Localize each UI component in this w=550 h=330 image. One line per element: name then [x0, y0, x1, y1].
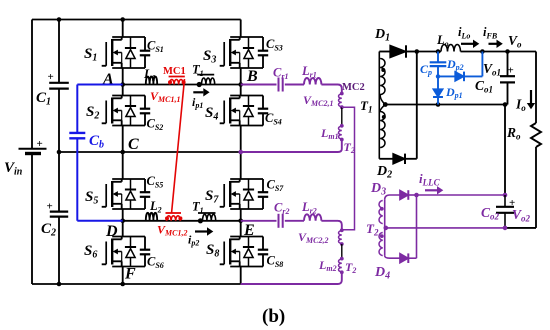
wire top rail	[32, 19, 241, 21]
wire left rail lower	[31, 154, 33, 285]
svg-text:+: +	[47, 201, 53, 213]
node T2 center tap	[384, 226, 389, 231]
transformer T2 secondary winding lower	[379, 233, 383, 256]
svg-text:S1: S1	[84, 46, 97, 64]
battery Vin	[19, 148, 47, 150]
capacitor CS3	[262, 37, 264, 51]
node E	[238, 219, 243, 224]
node Vo/Co1	[505, 49, 510, 54]
svg-text:B: B	[246, 68, 258, 85]
svg-text:S4: S4	[205, 105, 218, 123]
node: top rail junction at left leg	[120, 17, 125, 22]
svg-text:+: +	[37, 138, 43, 150]
transistor S5	[112, 178, 145, 180]
capacitor Cp	[437, 52, 439, 63]
body diode of S1	[130, 37, 132, 48]
transistor S6	[112, 236, 145, 238]
svg-text:CS2: CS2	[147, 117, 164, 132]
transistor S2	[112, 95, 145, 97]
inductor Lr2	[304, 214, 321, 221]
transformer T2 secondary winding upper	[379, 201, 383, 224]
inductor Lo	[441, 45, 461, 52]
coupled winding MC1 lower (VMC1,2)	[166, 212, 182, 214]
svg-text:Vo2: Vo2	[512, 207, 531, 223]
capacitor C1	[58, 20, 60, 83]
svg-text:Lr1: Lr1	[301, 64, 317, 79]
svg-text:CS6: CS6	[147, 255, 164, 270]
node Co2 bottom	[503, 226, 508, 231]
wire Lm1 return to mid rail	[241, 140, 342, 153]
svg-text:VMC2,2: VMC2,2	[298, 230, 328, 245]
inductor L2	[146, 213, 157, 221]
svg-text:Io: Io	[515, 97, 526, 113]
capacitor Co2	[504, 195, 506, 207]
svg-text:CS3: CS3	[266, 37, 283, 52]
current arrow iFB	[489, 43, 497, 45]
wire A to B	[123, 84, 241, 86]
node Co2 top	[503, 193, 508, 198]
node Cp/Dp junction	[436, 74, 440, 78]
transformer T1 secondary line	[378, 52, 380, 159]
svg-text:S2: S2	[86, 104, 99, 122]
svg-text:D1: D1	[374, 27, 390, 44]
svg-text:Dp2: Dp2	[446, 57, 464, 72]
capacitor Cb	[69, 132, 85, 134]
node iFB junction	[480, 49, 485, 54]
svg-text:Cb: Cb	[89, 133, 104, 151]
svg-text:CS7: CS7	[267, 178, 285, 193]
capacitor CS6	[144, 237, 146, 250]
wire left rail upper	[31, 20, 33, 149]
magnetic link MC1	[172, 79, 185, 214]
right rail with Io and Ro	[535, 52, 537, 124]
node: mid rail junction at C column	[57, 150, 62, 155]
transformer T1 secondary winding lower	[380, 105, 385, 148]
svg-text:CS4: CS4	[265, 111, 282, 126]
node A	[120, 82, 125, 87]
wire bottom rail	[32, 283, 241, 285]
transformer T1 primary lower	[198, 212, 216, 214]
diode D4	[385, 256, 400, 258]
coupled winding MC1 upper	[169, 76, 185, 78]
svg-text:S6: S6	[84, 243, 97, 261]
node Co1 bottom	[503, 102, 508, 107]
capacitor CS2	[144, 96, 146, 109]
svg-text:iLLC: iLLC	[419, 171, 441, 187]
node mid rail purple junction	[238, 150, 243, 155]
svg-text:C2: C2	[41, 221, 56, 239]
wire to Co2 top	[417, 194, 506, 196]
svg-text:ip2: ip2	[188, 233, 199, 248]
svg-text:D3: D3	[370, 181, 386, 198]
wire right leg segments	[240, 20, 242, 38]
wire junction to Lo	[417, 51, 441, 53]
svg-text:Vo1: Vo1	[483, 61, 501, 77]
svg-text:Cr1: Cr1	[273, 66, 288, 81]
inductor L1	[146, 76, 157, 84]
body diode of S2	[130, 96, 132, 107]
node: top rail junction at C1	[57, 17, 62, 22]
wire MC2L to Lm2	[341, 244, 343, 259]
node: bottom rail junction at C column	[57, 282, 62, 287]
wire Lr1 to MC2	[321, 85, 341, 95]
wire Vo1 bottom to Co2 top	[504, 105, 506, 196]
svg-text:Co1: Co1	[475, 78, 493, 94]
svg-text:L2: L2	[149, 199, 162, 214]
wire mid rail C	[59, 151, 241, 153]
transistor S4	[230, 95, 263, 97]
wire T2 tap to Co2 bottom	[386, 227, 505, 229]
svg-text:F: F	[124, 266, 136, 283]
svg-text:S7: S7	[205, 188, 219, 206]
capacitor CS7	[262, 179, 264, 192]
svg-text:Ro: Ro	[506, 125, 521, 141]
svg-text:D: D	[105, 223, 118, 240]
diode Dp2	[438, 75, 455, 77]
svg-text:T1: T1	[192, 63, 204, 78]
capacitor C2	[58, 152, 60, 212]
node D3/D4 junction	[414, 193, 419, 198]
svg-text:+: +	[508, 65, 514, 77]
capacitor CS8	[262, 237, 264, 250]
transformer T2 secondary line	[384, 200, 386, 256]
node Dp1 bottom	[436, 102, 441, 107]
svg-text:Vo: Vo	[508, 33, 522, 49]
inductor Lm2	[340, 257, 344, 261]
svg-text:MC2: MC2	[342, 82, 365, 93]
body diode of S7	[248, 179, 250, 190]
svg-text:iLo: iLo	[458, 25, 470, 40]
wire blue to node D	[76, 138, 78, 221]
node B	[238, 82, 243, 87]
svg-text:Lm2: Lm2	[318, 258, 337, 273]
diode D1	[379, 51, 390, 53]
transformer T1 secondary winding upper	[380, 59, 385, 105]
diode D3	[385, 195, 400, 200]
svg-text:iFB: iFB	[483, 25, 498, 40]
svg-text:C: C	[128, 136, 139, 153]
transistor S1	[112, 36, 145, 38]
wire Lr2 to MC2 lower	[321, 221, 341, 231]
svg-text:VMC1,2: VMC1,2	[157, 223, 187, 238]
svg-text:S3: S3	[203, 48, 216, 66]
svg-text:C1: C1	[36, 90, 51, 108]
resistor Ro	[531, 123, 541, 147]
magnetic link MC2 vertical	[342, 107, 355, 230]
wire E to Cr2	[241, 220, 277, 222]
svg-text:MC1: MC1	[163, 66, 186, 77]
capacitor CS5	[144, 179, 146, 192]
svg-text:CS5: CS5	[147, 174, 164, 189]
svg-text:T2: T2	[366, 221, 379, 237]
transistor S8	[230, 236, 263, 238]
wire D to E	[123, 220, 241, 222]
node Cp top	[436, 49, 441, 54]
wire D2 cathode riser	[416, 52, 418, 159]
coupled winding MC2 lower (VMC2,2)	[340, 228, 344, 232]
current arrow ip1	[193, 91, 203, 93]
svg-text:D4: D4	[374, 265, 390, 282]
transformer T1 primary upper	[197, 74, 214, 76]
svg-text:S5: S5	[85, 189, 98, 207]
svg-text:VMC2,1: VMC2,1	[303, 93, 333, 108]
diode Dp1	[437, 76, 439, 89]
node F	[120, 282, 125, 287]
body diode of S3	[248, 37, 250, 48]
svg-text:E: E	[243, 222, 255, 239]
center tap node	[383, 102, 388, 107]
svg-text:CS8: CS8	[267, 254, 284, 269]
inductor Lr1	[304, 78, 321, 84]
svg-text:D2: D2	[376, 164, 392, 181]
wire Lm2 return to bottom rail	[241, 272, 342, 284]
svg-text:VMC1,1: VMC1,1	[150, 89, 180, 104]
svg-text:Lo: Lo	[436, 33, 449, 48]
wire D4 cathode riser	[416, 195, 418, 258]
current arrow ip2	[195, 230, 207, 232]
wire MC2 to Lm1	[341, 107, 343, 126]
wire blue from node A	[77, 84, 122, 86]
wire Cr1 to Lr1	[285, 84, 304, 86]
node D	[120, 219, 125, 224]
body diode of S5	[130, 179, 132, 190]
svg-text:S8: S8	[206, 242, 219, 260]
capacitor CS1	[144, 37, 146, 51]
node C	[120, 150, 125, 155]
coupled winding MC2 upper	[340, 92, 344, 96]
wire left leg segments	[122, 20, 124, 38]
current arrow iLo	[461, 43, 473, 45]
wire Lo to Vo	[461, 51, 537, 53]
svg-text:Cp: Cp	[420, 62, 432, 77]
body diode of S6	[130, 237, 132, 248]
svg-text:Lr2: Lr2	[301, 200, 317, 215]
node D1/D2 junction	[415, 49, 420, 54]
svg-text:Lm1: Lm1	[320, 126, 339, 141]
svg-text:T1: T1	[360, 98, 372, 114]
wire center tap to Co1	[385, 104, 507, 106]
body diode of S4	[248, 96, 250, 107]
diode D2	[379, 158, 393, 160]
svg-text:L1: L1	[143, 67, 156, 82]
svg-text:CS1: CS1	[147, 39, 164, 54]
inductor Lm1	[340, 124, 344, 128]
svg-text:T2: T2	[345, 260, 356, 275]
wire Cr2 to Lr2	[285, 220, 304, 222]
svg-text:T1: T1	[192, 200, 204, 215]
capacitor Cr2	[278, 214, 280, 228]
svg-text:Dp1: Dp1	[445, 85, 463, 100]
svg-text:+: +	[48, 71, 54, 83]
current arrow Io	[530, 90, 532, 103]
svg-text:Vin: Vin	[4, 160, 23, 178]
capacitor CS4	[262, 96, 264, 109]
body diode of S8	[248, 237, 250, 248]
svg-text:ip1: ip1	[192, 95, 203, 110]
transistor S3	[230, 36, 263, 38]
transistor S7	[230, 178, 263, 180]
capacitor Co1	[507, 52, 509, 77]
wire Ro bottom to Co2 bottom	[505, 227, 536, 229]
svg-text:Cr2: Cr2	[274, 201, 289, 216]
capacitor Cr1	[278, 78, 280, 92]
svg-text:(b): (b)	[262, 306, 285, 327]
svg-text:T2: T2	[344, 140, 355, 155]
current arrow iLLC	[425, 189, 437, 191]
wire B to Cr1	[241, 84, 277, 86]
